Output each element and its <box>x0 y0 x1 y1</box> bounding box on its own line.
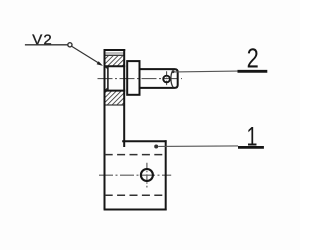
svg-text:2: 2 <box>247 45 259 75</box>
svg-text:1: 1 <box>247 121 258 152</box>
svg-text:V: V <box>32 32 42 49</box>
svg-text:2: 2 <box>43 32 51 49</box>
